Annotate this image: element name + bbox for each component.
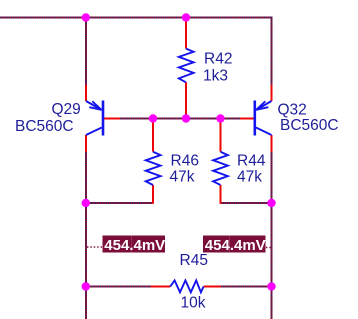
svg-text:47k: 47k [237,168,262,185]
svg-text:Q32: Q32 [278,101,307,118]
svg-text:1k3: 1k3 [203,67,228,84]
svg-text:10k: 10k [181,294,206,311]
svg-text:BC560C: BC560C [280,117,339,134]
svg-text:R44: R44 [237,153,266,170]
svg-text:BC560C: BC560C [15,118,74,135]
svg-text:Q29: Q29 [52,101,81,118]
svg-text:R45: R45 [180,252,208,269]
svg-text:R46: R46 [171,153,199,170]
svg-text:R42: R42 [204,51,232,68]
svg-text:454.4mV: 454.4mV [104,237,165,254]
svg-text:47k: 47k [170,168,195,185]
svg-text:454.4mV: 454.4mV [205,237,266,254]
